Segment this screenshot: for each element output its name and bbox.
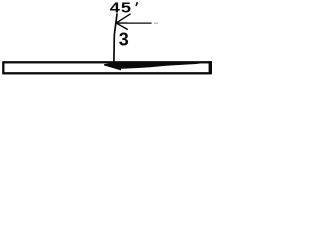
- label 45: [110, 0, 132, 16]
- weld wedge along top inside of plate: [119, 62, 200, 69]
- open arrowhead lower barb: [116, 23, 128, 30]
- degree tick: [135, 2, 138, 6]
- leader line (vertical, slight lean): [114, 13, 117, 62]
- open arrowhead upper barb: [116, 14, 130, 23]
- plate (bar) outline: [3, 62, 210, 73]
- svg-text:3: 3: [119, 29, 129, 49]
- plate right edge (thicker): [209, 61, 212, 74]
- dimension line faint dash: [154, 22, 158, 24]
- dimension line to the right: [116, 22, 151, 24]
- svg-text:45: 45: [110, 0, 132, 16]
- solid arrowhead at joint: [104, 62, 121, 71]
